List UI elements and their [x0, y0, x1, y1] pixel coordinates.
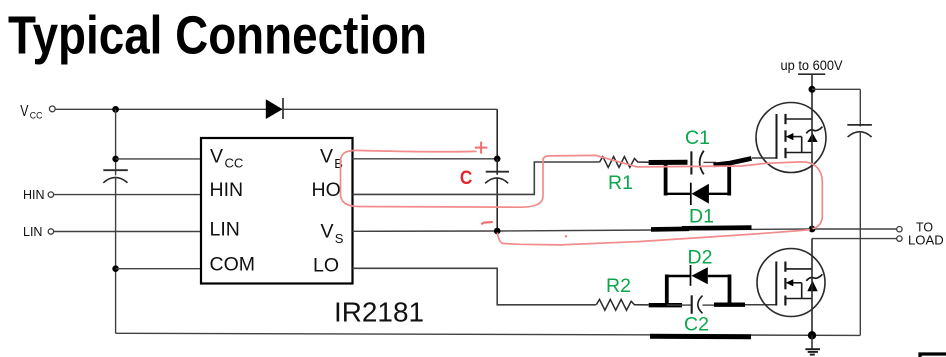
svg-text:V: V [20, 103, 29, 120]
wire: VB pin to bootstrap cap [353, 158, 498, 160]
Q1 channel bar (dashed) [784, 114, 786, 158]
svg-text:IR2181: IR2181 [334, 297, 424, 328]
svg-text:LIN: LIN [210, 219, 240, 241]
svg-text:up to 600V: up to 600V [781, 58, 843, 73]
pin label VB [320, 146, 343, 172]
wire mark thick (HO lead left of C1) [649, 160, 688, 165]
svg-text:R1: R1 [608, 172, 633, 194]
wire: left vertical bus x=116 (lower part) [115, 178, 117, 334]
svg-text:C1: C1 [685, 127, 710, 149]
frame corner bottom-right [920, 354, 946, 357]
terminal Vcc label [20, 103, 42, 122]
wire mark: D1 loop left vertical [664, 163, 668, 196]
wire: drain rail Q1 (top terminal to VS node) [811, 74, 813, 229]
wire: LIN to IC [54, 231, 201, 233]
node: VS dot at bootstrap cap [494, 228, 501, 235]
wire: HIN to IC [54, 194, 201, 196]
Q1 drain branch [786, 118, 813, 120]
red annotation: top line through plus sign [356, 150, 477, 151]
svg-text:HO: HO [312, 179, 341, 201]
resistor R1 [600, 157, 649, 168]
wire: Vcc rail corner down to VB node [496, 109, 498, 159]
wire: gate lead Q2 [745, 304, 777, 306]
red annotation: loop around VB/HO and path to switch node [341, 150, 823, 229]
svg-text:V: V [321, 220, 334, 242]
wire mark thick on VS rail (second stroke) [682, 225, 752, 230]
wire mark: D2 loop right vertical [728, 275, 732, 306]
svg-text:CC: CC [30, 111, 43, 122]
wire mark: D2 branch right [708, 275, 730, 277]
wire: HO pin with step up to R1 [353, 162, 600, 194]
wire mark: D2 branch left [667, 275, 691, 277]
wire: right bus rail upper [859, 89, 861, 126]
capacitor C1 [691, 151, 716, 175]
svg-text:COM: COM [210, 254, 256, 276]
red annotation: small dot [565, 235, 568, 238]
Q1 body arrow [786, 133, 802, 153]
wire: Q2 drain rail from lower load wire to bottom node [811, 239, 813, 336]
node: VB junction dot [494, 156, 501, 163]
wire mark thick on VS rail [651, 227, 689, 232]
capacitor C2 [667, 295, 716, 314]
Q2 channel bar (dashed) [784, 262, 786, 306]
Q2 body arrow [786, 279, 802, 298]
wire: VS rail from IC to load [353, 229, 897, 231]
wire mark thick (right of C1 to gate) [714, 158, 752, 165]
terminal Vcc circle [49, 106, 55, 112]
wire: bottom ground return [116, 333, 861, 335]
pin label Vcc [210, 146, 243, 171]
Q2 source branch [785, 298, 812, 300]
svg-text:LOAD: LOAD [908, 233, 944, 248]
svg-text:S: S [335, 231, 344, 246]
svg-text:V: V [210, 146, 223, 168]
diode D2 (pointing left) [691, 265, 708, 286]
svg-text:V: V [320, 146, 333, 168]
wire: right bus rail lower [859, 131, 861, 335]
wire: gate lead Q1 [752, 157, 777, 159]
Q1 gate bar [776, 114, 778, 159]
node: dot at COM branch [112, 265, 119, 272]
red annotation: VS underline path [497, 230, 810, 245]
wire mark thick (LO lead left of C2) [649, 303, 682, 307]
wire: to IC COM pin [116, 268, 201, 270]
wire mark: D1 loop right vertical [727, 163, 731, 196]
Q2 gate bar [775, 262, 777, 306]
node: dot top rail [809, 86, 816, 93]
svg-text:HIN: HIN [210, 179, 244, 201]
wire: Vcc top rail [56, 108, 498, 110]
terminal HIN [23, 188, 54, 202]
wire mark thick (right of C2 to gate) [714, 303, 745, 307]
op-amp/IC U1 IR2181 box [201, 138, 353, 284]
label TO LOAD [908, 220, 944, 248]
transistor Q1 high-side MOSFET circle [756, 103, 826, 173]
Q2 body diode on drain rail [806, 274, 822, 291]
pin label VS [321, 220, 344, 246]
diode D1 (pointing left) [691, 183, 709, 205]
terminal LIN [23, 225, 54, 239]
svg-text:C: C [460, 167, 472, 189]
Q2 drain branch [785, 268, 812, 270]
node: dot at Vcc pin branch [112, 156, 119, 163]
Q1 body diode on drain rail [806, 127, 822, 142]
red annotation: minus sign [481, 222, 493, 224]
red annotation: plus sign [475, 142, 488, 154]
resistor R2 [596, 299, 648, 310]
capacitor C bootstrap [485, 159, 509, 231]
svg-text:HIN: HIN [23, 188, 45, 202]
wire mark: D2 loop left vertical [665, 275, 669, 306]
svg-text:LO: LO [313, 255, 339, 277]
Q1 source branch [786, 152, 813, 154]
svg-text:D2: D2 [688, 246, 713, 268]
capacitor bus (right) [847, 125, 872, 137]
svg-text:CC: CC [225, 156, 244, 171]
transistor Q2 low-side MOSFET circle [757, 249, 825, 317]
wire: to IC Vcc pin [116, 158, 201, 160]
wire mark thick on bottom rail [650, 334, 751, 340]
wire: LO pin with step down to R2 [353, 268, 597, 305]
svg-text:R2: R2 [606, 275, 631, 297]
terminal TO LOAD lower circle [897, 236, 902, 241]
ground [805, 335, 820, 354]
wire: lower load wire [812, 238, 897, 240]
top terminal bar [798, 73, 825, 75]
wire: left vertical bus x=116 (upper part) [115, 109, 117, 175]
svg-text:Typical Connection: Typical Connection [8, 7, 427, 66]
terminal TO LOAD upper circle [897, 227, 902, 232]
wire mark: D1 branch left [666, 193, 691, 195]
svg-text:LIN: LIN [23, 225, 42, 239]
svg-text:D1: D1 [689, 206, 714, 228]
node: junction dot on Vcc rail [112, 106, 119, 113]
diode bootstrap (on Vcc rail, pointing right) [266, 98, 283, 119]
svg-text:C2: C2 [684, 314, 709, 336]
node: bottom junction dot [808, 331, 816, 339]
wire: top rail to bus cap [812, 88, 860, 90]
wire mark: D1 branch right [709, 193, 730, 195]
node: VS dot at switch node [809, 226, 816, 233]
capacitor left decoupling (on x=116 bus) [103, 170, 128, 183]
